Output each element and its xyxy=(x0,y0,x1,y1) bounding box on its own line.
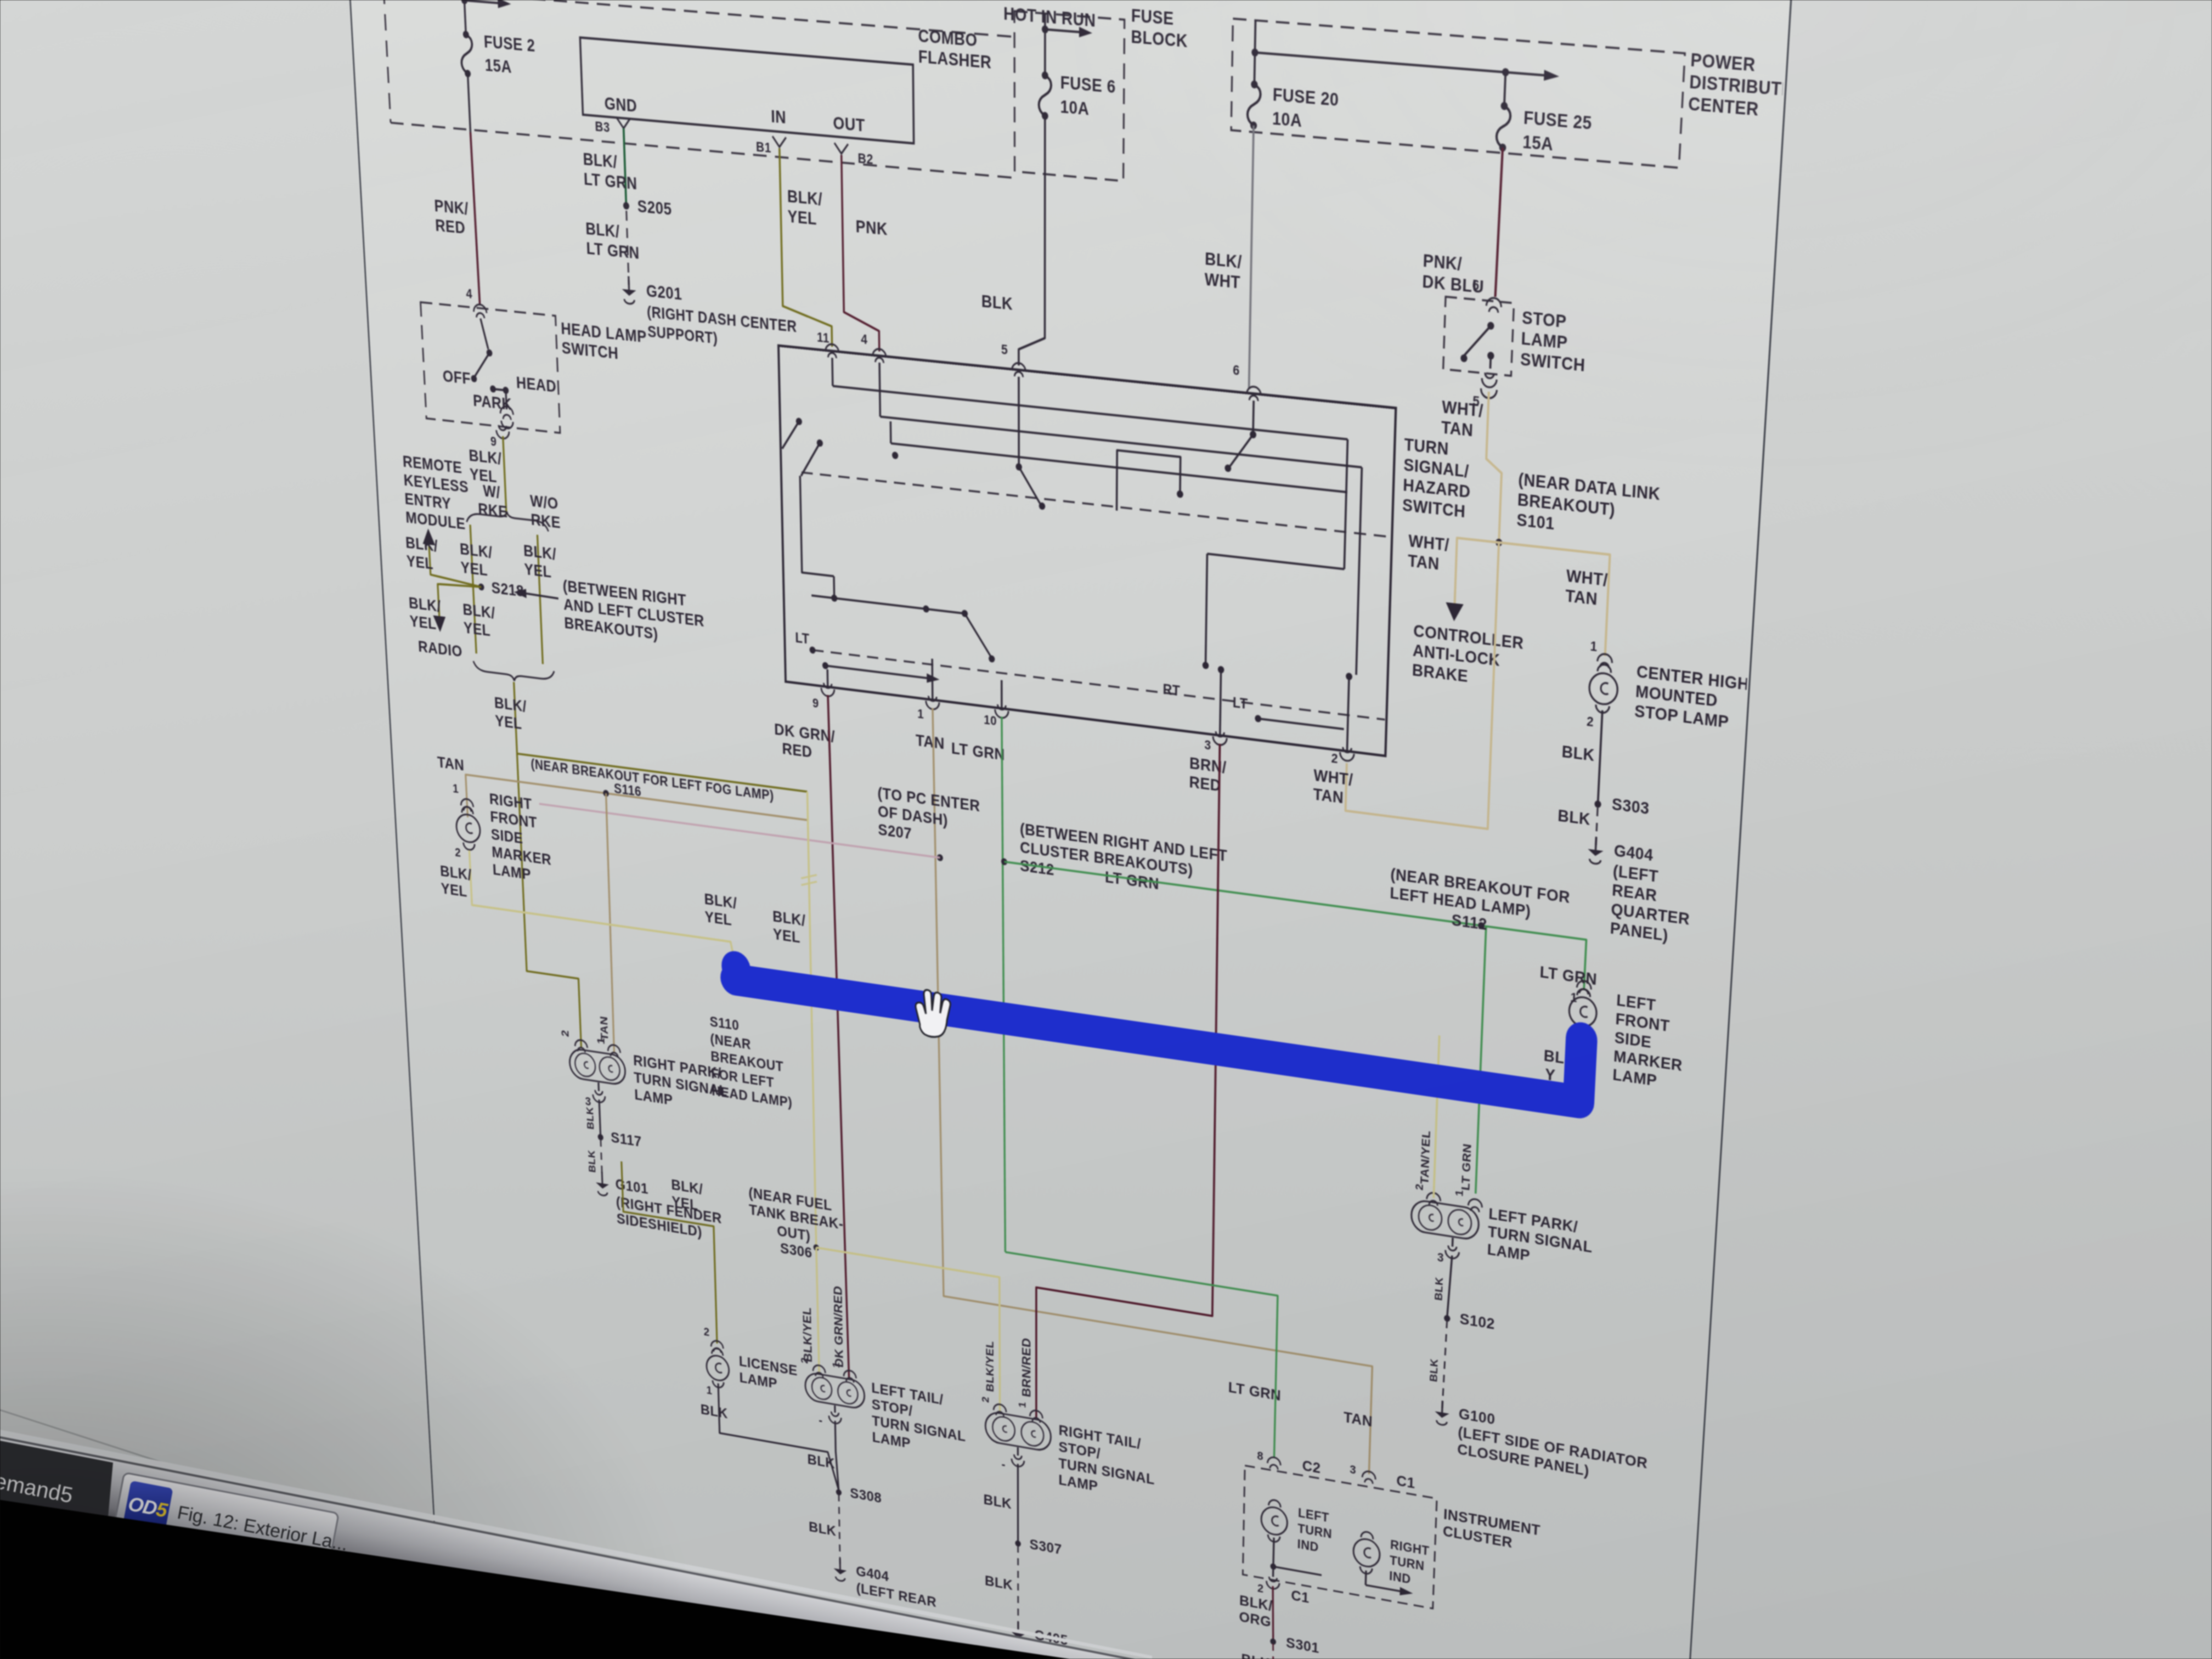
wire feed to FUSE 2 from top with junction arrow xyxy=(451,0,512,35)
wire BLK/YEL pale vertical to S306 xyxy=(799,791,824,1246)
labels BLK/YEL cluster around RKE xyxy=(405,528,560,648)
node S303 xyxy=(1594,793,1650,819)
wire PNK/DK BLU fuse25 to stop lamp switch xyxy=(1422,141,1503,298)
label near breakout for left fog lamp S116 xyxy=(531,757,775,817)
labels below switch xyxy=(774,698,1353,831)
combo flasher box xyxy=(579,0,992,150)
wire WHT/TAN S101 to CHMSL pin 1 xyxy=(1495,543,1610,656)
brace split RKE xyxy=(466,507,548,532)
pin 5 connector below stop lamp switch xyxy=(1472,371,1498,411)
wire BLK right tail to S307 ground G405 xyxy=(983,1441,1082,1659)
dashed fuse box top left xyxy=(372,0,1014,178)
pin 9 connector below headlamp switch xyxy=(490,424,510,450)
wire LT GRN S112 to left front side marker pin 1 xyxy=(1538,934,1599,1008)
brace merge below RKE xyxy=(473,661,555,686)
RKE module arrow and wire to S218 xyxy=(422,528,481,587)
headlamp switch dashed box xyxy=(420,302,560,433)
wire BLK/WHT fuse20 down to switch pin 6 xyxy=(1203,122,1254,389)
wire BLK/YEL left branch of brace xyxy=(470,524,476,653)
wire DK GRN/RED switch pin 9 to left tail lamp pin 1 xyxy=(821,694,849,1377)
wire BLK CHMSL to S303 xyxy=(1560,706,1602,802)
stop lamp switch contact xyxy=(1460,295,1502,370)
wire BLK/YEL combo B1 down to switch pin 11 xyxy=(780,148,832,347)
lamp left tail stop turn signal xyxy=(799,1356,966,1462)
wire PNK/RED fuse2 to headlamp switch pin 4 xyxy=(427,70,479,305)
wire LT GRN S212 horizontal xyxy=(1004,862,1579,939)
arrow from breakout note to S218 xyxy=(513,571,706,649)
wire BLK/YEL pin9 to RKE brace xyxy=(468,432,507,515)
wire BLK/LT GRN combo GND to S205 xyxy=(582,125,637,206)
headlamp switch contacts OFF PARK HEAD xyxy=(439,301,558,434)
wire PNK combo B2 down to switch pin 4 xyxy=(842,155,889,352)
lamp CHMSL center high mounted stop lamp xyxy=(1587,639,1751,748)
node S301 xyxy=(1241,1627,1319,1659)
wire BLK fuse6 to switch pin 5 xyxy=(980,110,1045,368)
wire BLK left tail to S308 xyxy=(819,1403,843,1491)
wire BLK/YEL stub to license lamp xyxy=(622,1161,717,1344)
dashed BLK to ground xyxy=(808,1489,840,1566)
lamp right park turn signal xyxy=(559,1029,727,1118)
lamp right tail stop turn signal xyxy=(980,1395,1155,1505)
wire TAN/YEL stub to left park pin 2 xyxy=(1434,1035,1439,1198)
screen reflection line bottom left xyxy=(0,1410,505,1573)
wire TAN/YEL S306 right to right tail pin 2 xyxy=(816,1248,1000,1412)
label HOT IN RUN xyxy=(1003,3,1096,31)
wire PNK to node S207 to PC enter of dash xyxy=(537,740,980,866)
lamp left front side marker xyxy=(1566,979,1686,1094)
pins 2 C1 below cluster xyxy=(1257,1581,1310,1606)
lamp right turn indicator xyxy=(1352,1530,1430,1600)
fuse block dashed box xyxy=(1014,0,1188,187)
lamp left turn indicator xyxy=(1261,1498,1333,1557)
turn signal hazard switch box xyxy=(778,346,1474,765)
rotated label BLK/YEL right tail xyxy=(984,1340,996,1393)
labels BL Y under left front side marker xyxy=(1543,1047,1565,1086)
wire WHT/TAN stop lamp switch to S101 xyxy=(1437,387,1504,540)
wire BLK/YEL right branch of brace xyxy=(537,535,543,664)
wire LT GRN switch pin 10 down through S212 xyxy=(1002,716,1005,1252)
wire TAN horizontal through S116 to pale vertical xyxy=(437,753,809,864)
cursor hand xyxy=(916,988,951,1040)
combo flasher pins B3 B1 B2 xyxy=(595,116,873,167)
wire stub to RADIO with arrow xyxy=(415,579,485,663)
wire BLK left park pin3 to S102 ground G100 xyxy=(1425,1235,1658,1489)
wire LT GRN down to instrument cluster C2 xyxy=(1005,1252,1278,1458)
fuse FUSE2 15A xyxy=(460,30,537,83)
rotated labels TAN/YEL LT GRN above left park lamp xyxy=(1418,1130,1474,1192)
switch internal wiring xyxy=(780,353,1394,755)
switch top pins 11 4 5 6 xyxy=(816,321,1261,402)
scrollbar light strip above taskbar xyxy=(0,1430,1152,1659)
power distribution center dashed box xyxy=(1231,14,1814,178)
node S218 xyxy=(478,577,524,601)
wire BRN/RED switch pin 3 to right tail pin 1 xyxy=(1019,719,1221,1448)
switch bottom pins 9 1 10 3 2 xyxy=(812,681,1354,777)
node S306 near fuel tank breakout xyxy=(748,1184,844,1267)
labels BLK/YEL mid column xyxy=(704,890,806,947)
label S110 near breakout for left head lamp xyxy=(709,1013,792,1110)
wire BLK/YEL S306 down to left tail pin 2 xyxy=(800,1245,819,1372)
wire BLK/YEL merged down then right xyxy=(493,679,807,792)
wire WHT/TAN S101 down to switch pin 2 xyxy=(1346,527,1499,829)
fuse FUSE6 10A with junction arrow xyxy=(1039,13,1116,126)
fuse FUSE20 10A xyxy=(1247,80,1339,137)
node S112 near breakout for left head lamp xyxy=(1389,865,1571,945)
node S116 xyxy=(603,789,609,797)
ground G404 left rear quarter panel xyxy=(1584,836,1694,947)
wire WHT/TAN S101 to controller antilock brake arrow xyxy=(1404,531,1527,692)
dashed wire to ground G201 xyxy=(585,207,641,286)
node S212 between right and left cluster breakouts xyxy=(1001,817,1228,902)
wire BLK/ORG to S301 xyxy=(1239,1580,1274,1639)
wire left turn ind down through cluster xyxy=(1266,1537,1322,1598)
lamp right front side marker xyxy=(452,785,552,886)
instrument cluster dashed box xyxy=(1243,1465,1541,1627)
lamp license xyxy=(705,1339,798,1412)
right park pin 3 BLK to S117 ground G101 xyxy=(584,1080,723,1244)
wire BLK license pin1 to S308 xyxy=(699,1380,839,1491)
taskbar button OnDemand5 dark xyxy=(0,1441,113,1523)
wire LT GRN branch down to left park lamp pin 1 xyxy=(1476,926,1486,1193)
highlighted blue wire BLK/YEL run xyxy=(720,918,1582,1106)
headlamp switch label xyxy=(561,319,648,366)
wire TAN S116 down to right park lamp pin 1 xyxy=(589,791,616,1053)
wire BLK/YEL RFSM pin 2 down and right to S110 xyxy=(439,846,735,978)
cluster pins 8 C2 and 3 C1 xyxy=(1257,1447,1415,1493)
node S308 xyxy=(807,1451,882,1506)
document page xyxy=(331,0,1807,1659)
wire TAN switch pin 1 down and right to cluster C1 xyxy=(933,708,1393,1475)
ground G201 right dash center support xyxy=(622,275,798,356)
label LT GRN near cluster wire xyxy=(1228,1379,1282,1404)
dashed BLK to ground xyxy=(1556,803,1598,845)
monitor bezel black xyxy=(0,1500,1070,1659)
bus wire inside PDC with arrow xyxy=(1251,20,1560,109)
labels W/ RKE and W/O RKE xyxy=(477,481,561,532)
node S101 near data link breakout xyxy=(1496,467,1661,563)
lamp left park turn signal xyxy=(1410,1183,1594,1274)
node S205 xyxy=(623,195,672,219)
fuse FUSE25 15A xyxy=(1496,101,1593,159)
ground G404 left rear xyxy=(833,1558,936,1611)
taskbar button OD5 Fig.12 Exterior La xyxy=(114,1472,353,1571)
stop lamp switch dashed box xyxy=(1443,297,1588,383)
wire BLK/YEL down to right park lamp pin 2 xyxy=(517,754,581,1048)
taskbar band xyxy=(0,1437,1251,1659)
remote keyless entry module label xyxy=(402,453,471,534)
